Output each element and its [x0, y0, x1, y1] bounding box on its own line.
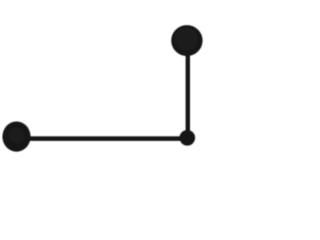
- node joint ball: [180, 130, 196, 146]
- wire vertical rod: [186, 40, 190, 138]
- wire horizontal rod: [16, 136, 188, 141]
- lamp head top disc: [171, 25, 202, 56]
- lamp head left disc: [2, 122, 30, 152]
